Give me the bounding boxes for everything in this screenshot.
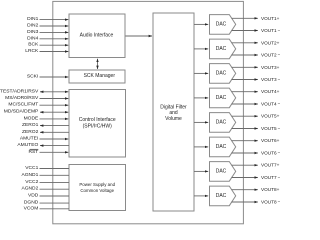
pin VOUT6+ [232, 138, 280, 143]
pin DIN2 [27, 23, 68, 29]
wire: filter to DAC U3 [194, 72, 208, 74]
pin VOUT1- [232, 28, 281, 33]
block: Power Supply and Common Voltage [69, 165, 126, 211]
pin BCK [28, 42, 68, 48]
pin SCKI [27, 74, 68, 80]
svg-text:VOUT6+: VOUT6+ [261, 138, 280, 143]
pin MS/ADR0/RSV [5, 95, 68, 101]
wire: Audio Interface to Digital Filter [126, 35, 153, 37]
svg-text:VCC1: VCC1 [25, 165, 38, 171]
wire: filter to DAC U1 [194, 23, 208, 25]
pin VOUT5- [232, 126, 281, 131]
block: SCK Manager [69, 70, 125, 83]
pin VOUT4+ [232, 89, 280, 94]
pin ZERO2 (output) [22, 129, 69, 135]
DAC U7 [210, 162, 236, 182]
svg-text:BCK: BCK [28, 42, 39, 48]
svg-text:VOUT6 −: VOUT6 − [261, 151, 280, 156]
svg-text:VOUT3+: VOUT3+ [261, 65, 280, 70]
svg-text:MS/ADR0/RSV: MS/ADR0/RSV [5, 95, 39, 101]
svg-text:VCC2: VCC2 [25, 179, 38, 185]
svg-text:DIN2: DIN2 [27, 23, 38, 29]
pin VOUT1+ [232, 16, 280, 21]
svg-text:RST: RST [29, 149, 39, 155]
svg-text:DIN1: DIN1 [27, 16, 38, 22]
DAC U8 [210, 186, 236, 206]
svg-text:DAC: DAC [216, 120, 227, 126]
svg-text:DAC: DAC [216, 193, 227, 199]
svg-text:VDD: VDD [28, 193, 39, 199]
svg-text:AMUTEI: AMUTEI [20, 136, 38, 142]
svg-text:AGND1: AGND1 [21, 172, 38, 178]
DAC U1 [210, 15, 236, 35]
wire: filter to DAC U2 [194, 48, 208, 50]
pin TEST/ADR1/RSV (bidirectional) [0, 88, 68, 94]
DAC U5 [210, 113, 236, 133]
svg-text:SCK Manager: SCK Manager [84, 73, 116, 79]
svg-text:VOUT4 −: VOUT4 − [261, 102, 280, 107]
pin AMUTEO (output) [17, 142, 69, 148]
svg-text:Volume: Volume [165, 116, 182, 122]
svg-text:ZERO1: ZERO1 [22, 122, 39, 128]
block: Audio Interface [69, 14, 125, 58]
pin MC/SCL/FMT [8, 102, 68, 108]
svg-text:DAC: DAC [216, 144, 227, 150]
svg-text:Audio Interface: Audio Interface [80, 32, 114, 38]
svg-text:DAC: DAC [216, 46, 227, 52]
pin AGND1 [21, 172, 69, 178]
pin VOUT8- [232, 200, 281, 205]
pin ZERO1 (output) [22, 122, 69, 128]
svg-text:Common Voltage: Common Voltage [80, 188, 114, 193]
pin VCOM [24, 205, 69, 211]
svg-text:VOUT4+: VOUT4+ [261, 89, 280, 94]
pin VOUT3+ [232, 65, 280, 70]
svg-text:VOUT1+: VOUT1+ [261, 16, 280, 21]
svg-text:AMUTEO: AMUTEO [17, 142, 38, 148]
DAC U2 [210, 39, 236, 59]
svg-text:Power Supply and: Power Supply and [79, 182, 115, 187]
svg-text:Control Interface: Control Interface [79, 117, 116, 123]
svg-text:DAC: DAC [216, 71, 227, 77]
svg-text:VOUT8 −: VOUT8 − [261, 200, 280, 205]
svg-text:VOUT2 −: VOUT2 − [261, 53, 280, 58]
svg-text:VCOM: VCOM [24, 205, 39, 211]
pin RST (active low, overline) [29, 149, 69, 155]
svg-text:MODE: MODE [24, 115, 39, 121]
pin DIN4 [27, 35, 68, 41]
svg-text:VOUT1 −: VOUT1 − [261, 28, 280, 33]
pin VOUT5+ [232, 114, 280, 119]
pin DGND [24, 200, 69, 206]
pin LRCK [25, 48, 68, 54]
DAC U6 [210, 137, 236, 157]
svg-text:DGND: DGND [24, 200, 39, 206]
wire: filter to DAC U4 [194, 97, 208, 99]
svg-text:VOUT7+: VOUT7+ [261, 163, 280, 168]
svg-text:MD/SDA/DEMP: MD/SDA/DEMP [4, 109, 39, 115]
block: Digital Filter and Volume [153, 13, 194, 211]
svg-text:DAC: DAC [216, 22, 227, 28]
pin DIN1 [27, 16, 68, 22]
svg-text:TEST/ADR1/RSV: TEST/ADR1/RSV [0, 88, 39, 94]
svg-text:VOUT7 −: VOUT7 − [261, 175, 280, 180]
svg-text:VOUT5 −: VOUT5 − [261, 126, 280, 131]
svg-text:DAC: DAC [216, 169, 227, 175]
svg-text:SCKI: SCKI [27, 74, 38, 80]
pin DIN3 [27, 29, 68, 35]
svg-text:DIN4: DIN4 [27, 35, 38, 41]
wire: Audio Interface to SCK Manager (bidirectional) [97, 59, 99, 69]
pin MODE [24, 115, 69, 121]
pin AMUTEI [20, 136, 68, 142]
svg-text:DIN3: DIN3 [27, 29, 38, 35]
wire: filter to DAC U6 [194, 146, 208, 148]
svg-text:VOUT8+: VOUT8+ [261, 187, 280, 192]
block: Control Interface (SPI/I2C/HW) [69, 90, 126, 158]
pin VOUT2- [232, 53, 281, 58]
DAC U3 [210, 64, 236, 84]
wire: filter to DAC U7 [194, 170, 208, 172]
wire: filter to DAC U8 [194, 195, 208, 197]
svg-text:VOUT2+: VOUT2+ [261, 40, 280, 45]
pin VCC1 [25, 165, 69, 171]
DAC U4 [210, 88, 236, 108]
svg-text:VOUT3 −: VOUT3 − [261, 77, 280, 82]
chip outline [53, 1, 244, 223]
svg-text:ZERO2: ZERO2 [22, 129, 39, 135]
pin VCC2 [25, 179, 69, 185]
svg-text:AGND2: AGND2 [21, 186, 38, 192]
pin VOUT7- [232, 175, 281, 180]
pin MD/SDA/DEMP (bidirectional) [4, 109, 69, 115]
svg-text:(SPI/I²C/HW): (SPI/I²C/HW) [83, 123, 112, 129]
svg-text:MC/SCL/FMT: MC/SCL/FMT [8, 102, 38, 108]
svg-text:VOUT5+: VOUT5+ [261, 114, 280, 119]
svg-text:LRCK: LRCK [25, 48, 39, 54]
pin VOUT7+ [232, 163, 280, 168]
pin VOUT8+ [232, 187, 280, 192]
pin AGND2 [21, 186, 69, 192]
wire: filter to DAC U5 [194, 121, 208, 123]
pin VOUT4- [232, 102, 281, 107]
pin VOUT2+ [232, 40, 280, 45]
svg-text:DAC: DAC [216, 95, 227, 101]
pin VOUT6- [232, 151, 281, 156]
pin VDD [28, 193, 69, 199]
pin VOUT3- [232, 77, 281, 82]
